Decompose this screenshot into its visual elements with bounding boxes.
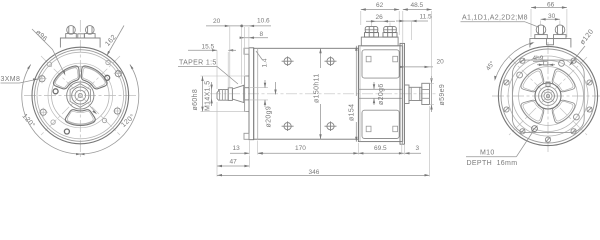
third circle — [37, 52, 124, 139]
key notch yoke — [544, 60, 548, 65]
bolt symbol 3 — [282, 121, 294, 131]
svg-text:13: 13 — [233, 145, 241, 152]
svg-text:3XM8: 3XM8 — [1, 76, 21, 83]
boss hole top-right — [114, 69, 123, 78]
bolt symbol 4 — [325, 121, 337, 131]
centerline diagonal A — [509, 57, 587, 135]
leader ø96 — [32, 29, 64, 74]
MIDDLE DIMENSIONS — [178, 2, 446, 177]
svg-text:ø120: ø120 — [579, 28, 595, 46]
svg-text:45°: 45° — [484, 59, 496, 72]
terminal block left view — [60, 38, 100, 48]
hole ring circle — [508, 56, 588, 136]
left view annotations — [1, 26, 139, 156]
centerline horizontal — [492, 95, 600, 97]
hub circle 2 — [72, 87, 89, 104]
svg-text:11.5: 11.5 — [420, 14, 433, 21]
LEFT-VIEW — [24, 20, 137, 157]
svg-text:8: 8 — [260, 31, 264, 38]
svg-text:62: 62 — [376, 2, 384, 9]
outer circle — [32, 47, 129, 144]
svg-text:TAPER 1:5: TAPER 1:5 — [179, 60, 217, 67]
svg-text:ø59e9: ø59e9 — [439, 84, 446, 106]
bolt symbol 1 — [282, 56, 294, 66]
arc 120 left — [22, 65, 81, 155]
thread section — [217, 90, 228, 101]
body main — [254, 48, 359, 139]
M10 hole 216 — [517, 72, 523, 78]
RIGHT-VIEW — [492, 42, 600, 152]
cover clip top-left — [366, 56, 371, 62]
centerline vertical — [547, 42, 549, 152]
mid terminal block — [361, 37, 398, 46]
M8 hole right — [105, 75, 110, 80]
centerline vertical — [79, 20, 81, 157]
leader 162 — [108, 26, 124, 55]
svg-text:4h9: 4h9 — [533, 55, 544, 62]
mid stud left — [365, 27, 379, 37]
brush housing — [358, 46, 402, 142]
M10 hole 36 — [574, 114, 580, 120]
boss hole bot-right — [113, 107, 122, 116]
flange tab top — [244, 48, 249, 54]
collar — [228, 88, 232, 101]
small ring circles — [47, 62, 51, 66]
vent top-left — [53, 66, 79, 89]
right view rim screws — [504, 58, 592, 142]
hub circle 3 — [75, 90, 86, 101]
MIDDLE-VIEW — [210, 27, 436, 145]
hub circle 4 — [78, 93, 82, 97]
svg-text:ø154: ø154 — [349, 104, 356, 121]
hub circles — [535, 83, 561, 109]
armature shaft lines — [358, 88, 401, 90]
right shaft — [409, 87, 422, 100]
stator bore circle — [519, 67, 578, 126]
terminal stud right head — [86, 26, 95, 35]
svg-text:3: 3 — [416, 145, 420, 152]
centerline diagonal A — [41, 56, 120, 135]
key slot hub — [546, 82, 550, 87]
svg-text:ø96: ø96 — [34, 29, 48, 43]
flange tab bottom — [244, 133, 249, 139]
svg-text:26: 26 — [376, 14, 384, 21]
cover clip top-right — [393, 56, 398, 62]
mid stud right — [383, 27, 397, 37]
svg-text:20: 20 — [437, 59, 445, 66]
svg-text:48.5: 48.5 — [411, 2, 424, 9]
svg-text:162: 162 — [104, 34, 118, 48]
svg-text:ø20g9: ø20g9 — [266, 106, 273, 128]
shaft root — [244, 88, 249, 100]
vent BL — [521, 100, 544, 123]
terminal center tab — [78, 34, 85, 38]
cover clip bot-right — [393, 126, 398, 132]
svg-text:47: 47 — [230, 159, 238, 166]
svg-text:DEPTH 16mm: DEPTH 16mm — [467, 160, 518, 167]
second circle — [501, 49, 595, 143]
outer circle — [498, 46, 597, 145]
boss hole top-left — [38, 74, 47, 83]
svg-text:M10: M10 — [480, 150, 495, 157]
svg-text:ø150h11: ø150h11 — [314, 73, 321, 103]
vent TR — [552, 69, 575, 92]
centerline horizontal — [24, 95, 137, 97]
arrow in bottom vent — [90, 106, 96, 113]
vent top-right — [81, 66, 107, 89]
hub outer circle — [67, 82, 94, 109]
flange boss ø60 — [245, 76, 249, 112]
svg-text:A1,1D1,A2,2D2;M8: A1,1D1,A2,2D2;M8 — [462, 15, 528, 22]
yoke rounded square — [512, 60, 584, 133]
brush cover top — [362, 50, 399, 78]
vent BR — [552, 100, 575, 123]
boss hole bot-left — [39, 108, 48, 117]
bolt symbol 2 — [325, 56, 337, 66]
terminal stud left head — [67, 26, 76, 35]
centerline — [210, 93, 436, 95]
terminal stud left base — [66, 34, 77, 38]
right view annotations — [461, 2, 596, 168]
bolt circle ø96 — [52, 67, 110, 125]
right terminal block — [530, 25, 571, 48]
vent outer circle — [48, 63, 113, 128]
centerline diagonal B — [41, 56, 120, 135]
cover clip bot-left — [366, 126, 371, 132]
right boss — [405, 85, 410, 104]
bolt circle ø120 — [513, 61, 584, 132]
body inner edge line — [257, 48, 259, 139]
svg-text:346: 346 — [309, 169, 320, 176]
svg-text:170: 170 — [295, 145, 306, 152]
taper — [232, 85, 243, 102]
second circle — [35, 50, 127, 142]
svg-text:69.5: 69.5 — [374, 145, 387, 152]
M8 hole left — [53, 89, 58, 94]
hub hexagon — [70, 84, 90, 108]
svg-text:ø20g6: ø20g6 — [378, 83, 385, 105]
flange plate — [249, 48, 254, 140]
svg-text:20: 20 — [213, 18, 221, 25]
right nut — [422, 83, 430, 104]
M10 hole 292 — [559, 61, 565, 67]
terminal stud right base — [85, 34, 96, 38]
M8 hole bottom — [64, 129, 69, 134]
svg-text:M14X1.5: M14X1.5 — [205, 81, 212, 111]
centerline diagonal B — [509, 57, 587, 135]
vent bottom — [65, 110, 95, 126]
svg-text:ø60h8: ø60h8 — [192, 89, 199, 111]
end plate — [400, 43, 405, 144]
arc 120 right — [80, 65, 139, 155]
vent TL — [521, 69, 544, 92]
brush cover bottom — [362, 110, 399, 138]
svg-text:120°: 120° — [20, 112, 36, 129]
M10 hole (leader target) — [532, 126, 538, 132]
svg-text:10.6: 10.6 — [257, 18, 270, 25]
